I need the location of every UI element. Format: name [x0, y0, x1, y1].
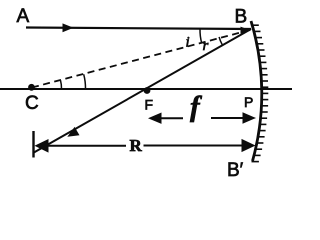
incident ray arrowhead: [63, 23, 74, 32]
svg-text:B′: B′: [227, 160, 244, 181]
svg-text:P: P: [244, 94, 253, 110]
reflected ray arrowhead: [67, 127, 79, 137]
R measure left arrow: [45, 145, 126, 147]
reflected ray B through F: [33, 29, 251, 153]
R measure bar at C: [32, 131, 34, 158]
F dot: [144, 87, 151, 94]
angle tick at C (outer): [84, 74, 86, 89]
incident ray A to B: [26, 28, 251, 30]
svg-text:r: r: [203, 38, 209, 54]
R measure right arrow: [144, 145, 243, 147]
f measure right arrow: [211, 117, 243, 119]
svg-text:A: A: [17, 6, 30, 27]
mirror arc: [251, 21, 262, 161]
incident ray arrowhead at B: [241, 27, 251, 34]
svg-text:R: R: [130, 136, 143, 155]
svg-text:f: f: [190, 91, 203, 123]
C dot: [28, 84, 35, 91]
mirror hatching: [251, 25, 268, 161]
svg-text:C: C: [25, 93, 39, 114]
principal axis: [0, 88, 292, 90]
svg-text:i: i: [186, 35, 190, 51]
angle i arc at B: [200, 29, 202, 43]
angle r arc at B: [219, 37, 222, 45]
normal CB (dashed): [32, 30, 250, 88]
svg-text:B: B: [235, 7, 248, 28]
angle arc at C (small): [61, 80, 62, 88]
svg-text:F: F: [145, 97, 154, 113]
f measure left arrow: [160, 117, 183, 119]
